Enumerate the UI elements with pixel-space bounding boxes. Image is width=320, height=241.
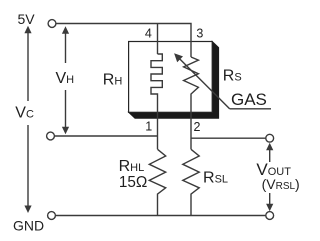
resistor RS zigzag (184, 57, 199, 149)
heater RH meander (151, 54, 162, 149)
svg-text:3: 3 (196, 27, 203, 41)
resistor RSL zigzag (183, 149, 199, 215)
svg-text:1: 1 (145, 119, 152, 133)
output wire (191, 137, 266, 139)
svg-text:2: 2 (194, 120, 201, 134)
svg-text:4: 4 (145, 27, 152, 41)
RS variable arrow (177, 56, 230, 109)
sensor box body (129, 42, 213, 113)
svg-text:GAS: GAS (231, 90, 267, 109)
heater return wire (54, 135, 158, 137)
resistor RHL zigzag (149, 149, 165, 215)
wire 5V rail (56, 24, 191, 58)
svg-text:5V: 5V (18, 11, 36, 27)
svg-text:GND: GND (13, 218, 44, 234)
Vc arrow (24, 26, 31, 213)
svg-text:15Ω: 15Ω (119, 174, 147, 191)
output terminal top (266, 134, 274, 142)
Vh arrow (62, 26, 69, 134)
ground terminal (48, 212, 56, 220)
heater return terminal (47, 132, 55, 140)
heater terminal wire pin4 (157, 24, 159, 55)
ground wire (55, 215, 266, 217)
sensor box shadow (129, 42, 219, 119)
Vout arrow (266, 143, 273, 211)
5V terminal (48, 20, 56, 28)
output terminal bottom (266, 212, 274, 220)
